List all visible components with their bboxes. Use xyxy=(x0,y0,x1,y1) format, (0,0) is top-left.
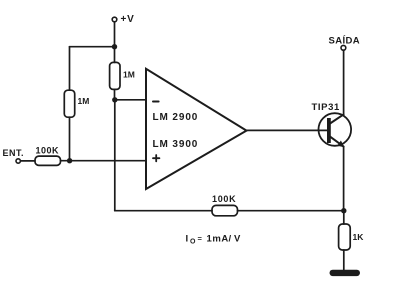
svg-text:=: = xyxy=(198,234,203,243)
wire from R3 to op-amp non-inverting input xyxy=(61,160,147,162)
resistor R4 100K body (feedback) xyxy=(212,205,238,215)
op-amp non-inverting input sign xyxy=(153,155,159,161)
wire op-amp output to transistor base xyxy=(247,129,328,131)
wire from node A down to resistor R2 xyxy=(114,47,116,63)
node B (inverting input node) xyxy=(112,97,117,102)
op-amp inverting input sign xyxy=(153,101,159,103)
wire emitter down to node D xyxy=(343,147,345,211)
ground xyxy=(330,270,361,276)
resistor R1 1M body xyxy=(64,90,74,117)
svg-text:I: I xyxy=(186,233,189,244)
resistor R2 1M body xyxy=(110,62,120,89)
wire down to resistor R1 xyxy=(69,47,71,90)
svg-text:100K: 100K xyxy=(36,145,60,155)
resistor R3 100K body xyxy=(35,156,61,165)
wire from R1 down to node ENT junction xyxy=(69,117,71,161)
node D (emitter / feedback junction) xyxy=(341,208,346,213)
svg-text:ENT.: ENT. xyxy=(3,148,25,158)
wire from +V terminal down to node A xyxy=(114,22,116,47)
wire from node A left to top of R1 branch xyxy=(70,46,115,48)
svg-text:TIP31: TIP31 xyxy=(312,102,340,113)
svg-text:V: V xyxy=(234,233,241,244)
svg-text:1K: 1K xyxy=(353,232,365,242)
node A (junction below +V) xyxy=(112,44,117,49)
wire collector up to SAIDA terminal xyxy=(343,50,345,115)
wire R4 to node D xyxy=(238,210,344,212)
svg-text:1M: 1M xyxy=(123,70,135,80)
wire node B to op-amp inverting input xyxy=(115,99,146,101)
wire node D down to resistor R5 xyxy=(343,211,345,224)
svg-text:O: O xyxy=(190,238,196,245)
svg-text:/: / xyxy=(229,233,232,244)
wire feedback bottom horizontal to R4 xyxy=(115,210,212,212)
input terminal ENT. xyxy=(3,148,25,163)
wire ENT terminal to resistor R3 xyxy=(21,160,36,162)
transistor Q1 TIP31 xyxy=(319,113,352,147)
svg-text:+V: +V xyxy=(121,14,135,25)
label Io = 1mA/V xyxy=(186,233,242,245)
power terminal +V xyxy=(112,14,134,25)
svg-text:LM 3900: LM 3900 xyxy=(153,139,199,150)
svg-text:LM 2900: LM 2900 xyxy=(153,112,199,123)
wire node B down feedback column xyxy=(114,100,116,211)
svg-text:100K: 100K xyxy=(212,194,236,204)
svg-text:SAÍDA: SAÍDA xyxy=(329,35,361,46)
output terminal SAIDA xyxy=(329,35,361,50)
wire R5 down to ground xyxy=(343,250,345,270)
resistor R5 1K body xyxy=(339,224,351,250)
node C (junction after R3) xyxy=(67,158,72,163)
wire from R2 to node B xyxy=(114,89,116,99)
svg-text:1M: 1M xyxy=(78,96,90,106)
svg-text:1mA: 1mA xyxy=(207,233,229,244)
op-amp U1 triangle xyxy=(146,69,247,189)
